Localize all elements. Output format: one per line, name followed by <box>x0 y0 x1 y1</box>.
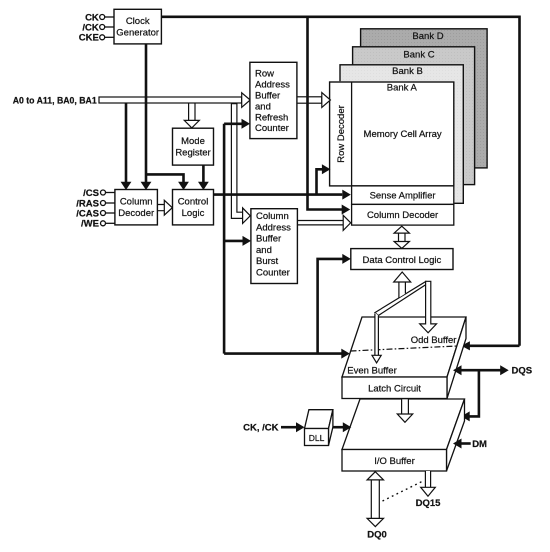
column address buffer and burst counter <box>251 209 298 284</box>
svg-text:Column Decoder: Column Decoder <box>367 210 438 221</box>
svg-text:CKE: CKE <box>79 33 99 44</box>
hollow arrow: latch circuit down into io slab <box>402 399 409 414</box>
svg-text:Even Buffer: Even Buffer <box>347 366 396 377</box>
svg-text:I/O Buffer: I/O Buffer <box>374 456 414 467</box>
svg-text:DQ0: DQ0 <box>367 530 387 541</box>
bus: row address buffer to row decoder (hollow) <box>297 97 322 103</box>
io slab: right side face <box>447 399 465 471</box>
dotted range line DQ0..DQ15 <box>383 481 424 501</box>
bank D <box>361 29 488 168</box>
svg-text:Decoder: Decoder <box>118 208 154 219</box>
row address buffer and refresh counter <box>250 62 297 138</box>
clock generator <box>114 9 161 44</box>
svg-text:Bank C: Bank C <box>403 49 434 60</box>
wire: DQS branch down into latch side <box>469 370 479 416</box>
svg-text:Column: Column <box>120 196 153 207</box>
bank C <box>353 47 475 185</box>
svg-text:Bank D: Bank D <box>412 31 443 42</box>
svg-text:Buffer: Buffer <box>256 234 281 245</box>
DLL cube <box>305 410 333 429</box>
wire: address bus branch down into Column Decoder (solid) <box>125 103 128 182</box>
buffer slab: top face (odd/even buffer) <box>342 317 466 377</box>
wire to Even Buffer <box>224 352 342 355</box>
latch circuit front face <box>342 377 447 399</box>
svg-text:Memory Cell Array: Memory Cell Array <box>364 129 442 140</box>
wire: clock branch down into Column Decoder strip <box>308 17 343 210</box>
DQ0 double hollow arrow <box>371 480 379 518</box>
wire: clock generator down to Column Decoder, branch to Control Logic <box>146 44 184 182</box>
svg-text:Clock: Clock <box>126 16 150 27</box>
data control logic <box>351 249 453 270</box>
svg-text:Mode: Mode <box>181 136 205 147</box>
column decoder strip <box>352 204 454 225</box>
bus: drop into Mode Register (hollow) <box>189 103 195 120</box>
svg-text:/CS: /CS <box>83 188 99 199</box>
svg-text:DQS: DQS <box>512 366 533 377</box>
svg-text:/WE: /WE <box>81 219 99 230</box>
wire: into Data Control Logic from Even-Buffer line <box>318 259 344 354</box>
wire to Column Address Buffer <box>224 240 243 243</box>
svg-text:Row: Row <box>255 69 274 80</box>
svg-text:Generator: Generator <box>116 27 159 38</box>
svg-text:Burst: Burst <box>256 256 279 267</box>
hollow arrow down into Even Buffer <box>375 313 379 356</box>
svg-text:Refresh: Refresh <box>255 112 288 123</box>
svg-text:CK, /CK: CK, /CK <box>243 423 279 434</box>
svg-text:Buffer: Buffer <box>255 91 280 102</box>
svg-text:Bank A: Bank A <box>387 83 418 94</box>
wire: DQS double arrow <box>461 369 501 372</box>
DQ15 hollow arrow <box>425 471 430 488</box>
command (column) decoder <box>115 190 157 225</box>
svg-text:Logic: Logic <box>182 208 205 219</box>
wire: clock generator output to top-right and down to Odd Buffer <box>161 17 519 346</box>
wire: branch up into Row Decoder <box>317 169 323 194</box>
control logic <box>173 190 214 225</box>
svg-text:and: and <box>256 245 272 256</box>
wire: control logic to sense amplifier <box>214 193 343 196</box>
svg-text:A0 to A11, BA0, BA1: A0 to A11, BA0, BA1 <box>13 95 98 106</box>
hollow arrow up into Data Control Logic <box>399 282 406 298</box>
bus: column decoder / data control logic (hollow double arrow) <box>399 233 406 241</box>
svg-text:DQ15: DQ15 <box>416 498 442 509</box>
bank B <box>340 65 463 204</box>
svg-text:DM: DM <box>472 439 487 450</box>
svg-text:and: and <box>255 101 271 112</box>
svg-text:Register: Register <box>175 147 210 158</box>
bus: column decoder to control logic (hollow arrow) <box>157 205 164 211</box>
wire: mode register to control logic <box>202 165 205 182</box>
row decoder <box>351 82 353 186</box>
svg-text:Counter: Counter <box>255 123 289 134</box>
bus: drop into Column Address Buffer (hollow, L-shape) <box>231 104 242 219</box>
svg-text:DLL: DLL <box>309 433 325 443</box>
mode register <box>173 128 214 165</box>
svg-text:Latch Circuit: Latch Circuit <box>368 383 421 394</box>
svg-text:Data Control Logic: Data Control Logic <box>363 255 442 266</box>
bus: column address buffer to column decoder (hollow) <box>297 221 343 225</box>
io slab: top face <box>342 399 465 450</box>
svg-text:Odd Buffer: Odd Buffer <box>411 335 457 346</box>
svg-text:Control: Control <box>178 196 209 207</box>
DM pin <box>461 442 471 445</box>
sense amplifier <box>352 186 454 205</box>
svg-text:Row Decoder: Row Decoder <box>336 105 347 163</box>
svg-text:Column: Column <box>256 211 289 222</box>
odd/even divider (dash-dot) <box>351 346 458 351</box>
bus: hollow address bus into Row Address Buffer <box>99 97 242 103</box>
svg-text:Address: Address <box>255 80 290 91</box>
svg-text:Address: Address <box>256 222 291 233</box>
svg-text:Bank B: Bank B <box>392 66 423 77</box>
bank A memory cell array <box>330 82 454 186</box>
node: control logic output junction vertical <box>224 124 342 354</box>
svg-text:Sense Amplifier: Sense Amplifier <box>370 190 436 201</box>
wire: CK,/CK into DLL <box>281 426 297 429</box>
buffer slab: right side face <box>447 317 466 399</box>
wire: DLL to io slab <box>333 426 344 429</box>
hollow arrow down into Odd Buffer <box>420 281 437 333</box>
svg-text:Counter: Counter <box>256 268 290 279</box>
i/o buffer front face <box>342 450 447 472</box>
hollow pipe: data control logic to odd/even buffers (slanted) <box>375 282 426 316</box>
wire to Row Address Buffer <box>224 123 242 126</box>
